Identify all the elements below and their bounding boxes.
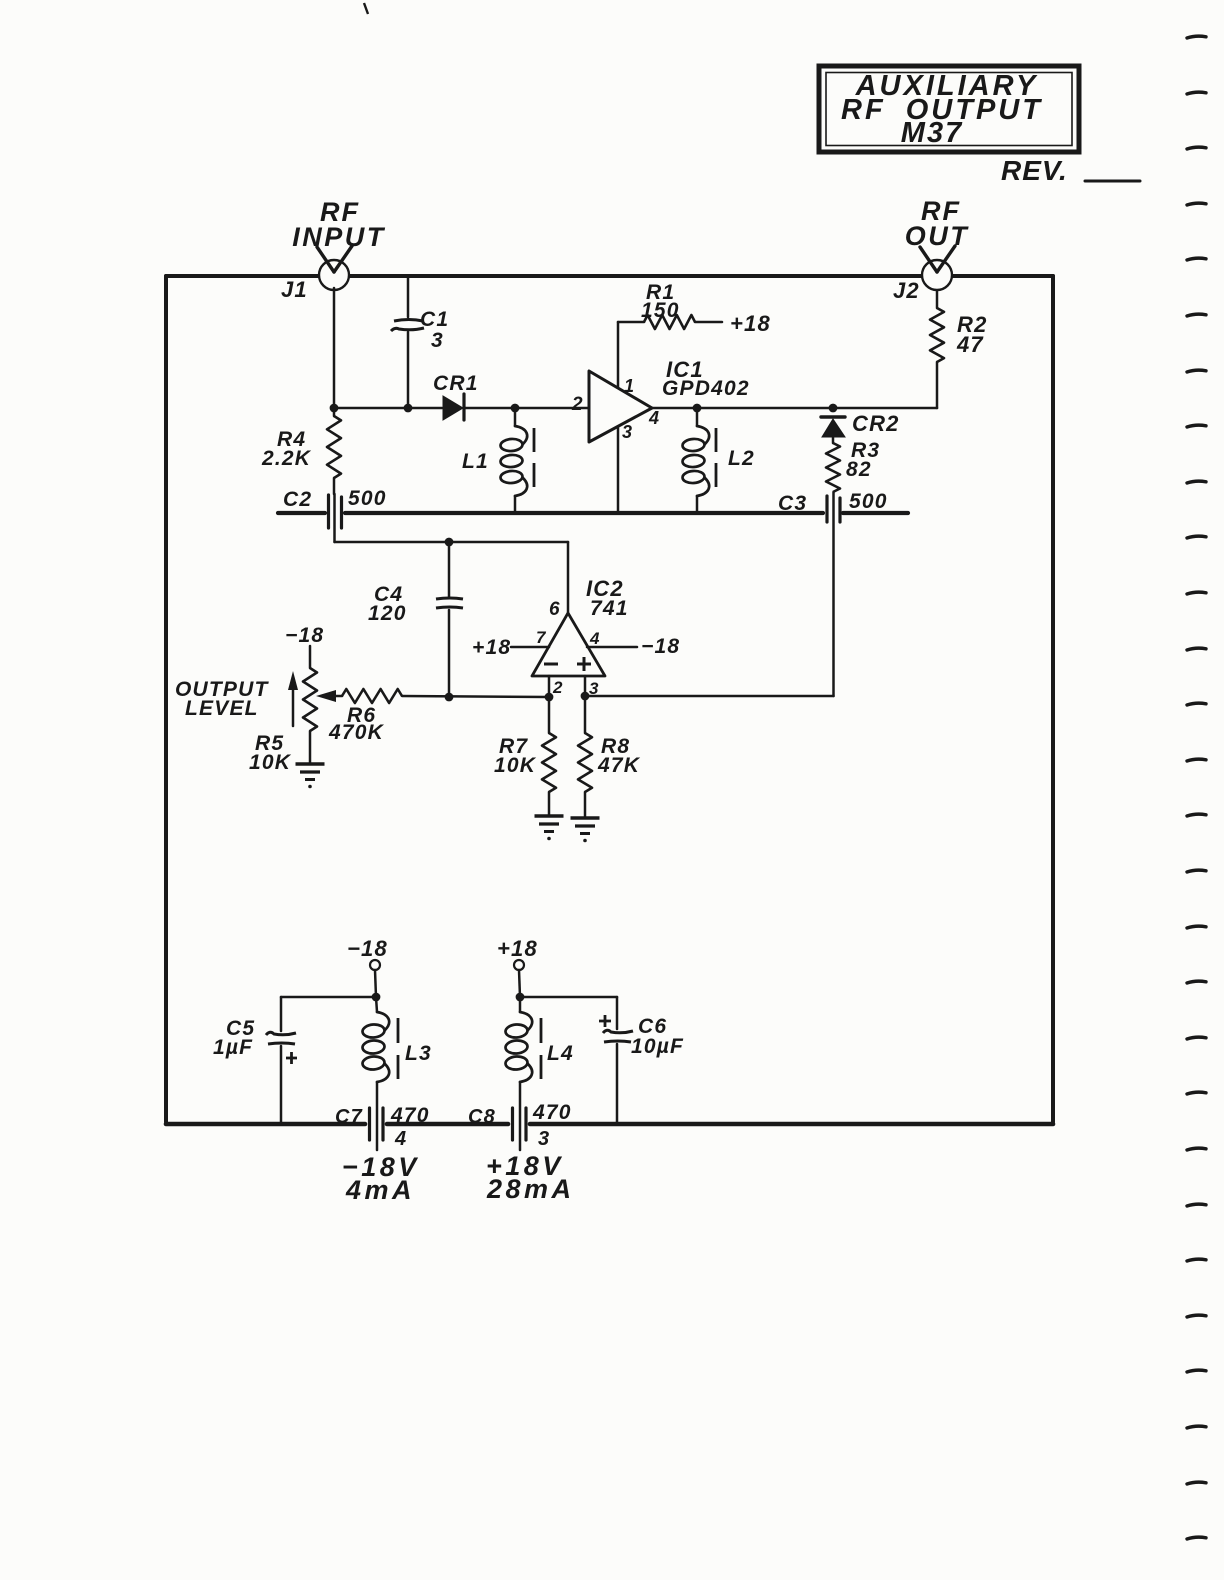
svg-text:4: 4	[648, 408, 660, 428]
capacitor C6 (electrolytic)	[599, 997, 633, 1122]
svg-text:+18: +18	[497, 936, 538, 961]
svg-text:CR2: CR2	[852, 411, 900, 436]
diode CR1	[443, 394, 464, 420]
label J1	[281, 277, 308, 302]
wire IC1 pin1 to R1	[618, 322, 644, 387]
wire IC2 pin2	[548, 676, 551, 733]
label C4 value	[368, 583, 407, 625]
svg-text:+18: +18	[730, 311, 771, 336]
label R1 value	[641, 281, 680, 322]
node IC2 pin3 junction	[581, 692, 590, 701]
svg-text:C3: C3	[778, 492, 807, 515]
svg-text:82: 82	[846, 458, 872, 481]
wire to C6	[520, 996, 617, 999]
wire L1 bottom	[514, 496, 517, 512]
potentiometer R5	[303, 668, 317, 764]
label J2	[893, 278, 920, 303]
enclosure bottom border / ground bus	[166, 1122, 1053, 1127]
svg-text:500: 500	[849, 490, 888, 513]
node L2 tap	[693, 404, 702, 413]
label R2 value	[956, 312, 988, 357]
svg-text:C2: C2	[283, 488, 312, 511]
label R5 value	[249, 732, 292, 774]
label R8 value	[597, 735, 641, 777]
feedthrough capacitor C2	[329, 495, 342, 528]
svg-text:7: 7	[536, 628, 547, 647]
svg-text:L2: L2	[728, 447, 755, 470]
title block box	[819, 66, 1079, 152]
resistor R8	[578, 733, 592, 818]
ground (R5)	[296, 764, 325, 788]
label -18V 4mA	[342, 1152, 420, 1205]
L4 core (dashed)	[540, 1018, 543, 1079]
svg-text:3: 3	[431, 329, 444, 352]
wire IC1 pin3 to bus	[617, 428, 620, 512]
svg-text:J1: J1	[281, 277, 308, 302]
label L1	[462, 450, 489, 473]
label IC2 pin 2	[552, 678, 564, 697]
svg-text:J2: J2	[893, 278, 920, 303]
feedthrough capacitor C8	[513, 1108, 527, 1140]
svg-text:LEVEL: LEVEL	[185, 697, 259, 720]
svg-text:6: 6	[549, 599, 561, 620]
wire L3 to C7	[376, 1082, 379, 1150]
label C6 value	[631, 1015, 684, 1058]
svg-text:1: 1	[624, 376, 635, 396]
wire L2 bottom	[696, 496, 699, 512]
node C4 tap (bottom)	[445, 693, 454, 702]
wire input node	[334, 407, 442, 410]
svg-text:47K: 47K	[597, 754, 641, 777]
inductor L1	[500, 426, 527, 496]
svg-text:470: 470	[532, 1101, 572, 1124]
svg-text:−18: −18	[347, 936, 388, 961]
wire R6 to IC2 pin2	[402, 696, 549, 697]
svg-text:2.2K: 2.2K	[261, 447, 312, 470]
net +18 (R1)	[730, 311, 771, 336]
label RF INPUT	[292, 197, 386, 252]
svg-text:10K: 10K	[494, 754, 537, 777]
op-amp U IC1	[589, 371, 652, 442]
svg-text:470K: 470K	[328, 721, 385, 744]
inductor L4	[505, 1012, 532, 1082]
wire R3 to C3 feedthrough	[832, 492, 835, 696]
wire -18 terminal to L3	[375, 970, 376, 997]
feedthrough capacitor C3	[827, 496, 840, 522]
wire CR1 to IC1 pin 2	[464, 407, 589, 410]
svg-text:4mA: 4mA	[345, 1175, 415, 1205]
label IC1 pin 4	[648, 408, 660, 428]
wire to C5	[281, 996, 376, 999]
node L1 tap	[511, 404, 520, 413]
op-amp IC2	[532, 613, 605, 676]
wire R4/C2 to IC2 pin6	[335, 494, 569, 612]
svg-text:OUT: OUT	[905, 221, 970, 251]
wire +18 terminal to L4	[519, 970, 520, 997]
inductor L2	[682, 426, 709, 496]
label IC1 GPD402	[662, 357, 750, 400]
resistor R4	[327, 408, 341, 494]
label OUTPUT LEVEL	[175, 678, 270, 720]
node C4 tap (top)	[445, 538, 454, 547]
svg-text:4: 4	[589, 629, 601, 648]
svg-text:47: 47	[956, 332, 984, 357]
wire C1 top	[407, 278, 410, 317]
svg-text:470: 470	[390, 1104, 430, 1127]
label IC2 pin 4	[589, 629, 601, 648]
connector J1	[317, 246, 352, 290]
label C1 value	[420, 308, 449, 352]
node J1/C1/R4 junction	[330, 404, 413, 413]
wire -18 to R5	[309, 646, 312, 668]
capacitor C1	[391, 320, 424, 409]
L3 core (dashed)	[397, 1018, 400, 1079]
binder hole scan marks (right edge)	[1187, 36, 1206, 1539]
wiper arrow of R5	[316, 690, 342, 702]
resistor R1	[644, 315, 722, 329]
label R7 value	[494, 735, 537, 777]
L2 core (dashed)	[715, 428, 718, 487]
net +18 (IC2)	[472, 636, 511, 659]
resistor R6	[342, 689, 402, 703]
svg-text:500: 500	[348, 487, 387, 510]
svg-text:120: 120	[368, 602, 407, 625]
enclosure border (module outline)	[166, 276, 1053, 1122]
svg-text:M37: M37	[901, 117, 963, 149]
wire J1 to input node	[333, 288, 336, 408]
svg-text:2: 2	[571, 394, 584, 415]
wire L1 top	[514, 408, 517, 426]
label R4 value	[261, 428, 312, 470]
svg-text:GPD402: GPD402	[662, 377, 750, 400]
svg-text:28mA: 28mA	[486, 1174, 575, 1204]
net -18 (R5)	[285, 624, 324, 647]
svg-text:150: 150	[641, 299, 680, 322]
node L3/C5 junction	[372, 993, 381, 1002]
label L3	[405, 1042, 432, 1065]
label CR2	[852, 411, 900, 436]
label IC1 pin 2	[571, 394, 584, 415]
inductor L3	[362, 1012, 389, 1082]
wire L4 to C8	[519, 1082, 522, 1150]
wire L4 top	[519, 997, 522, 1012]
label R6 value	[328, 704, 385, 744]
label C8 value	[468, 1101, 572, 1150]
label IC1 pin 3	[622, 422, 633, 442]
label REV	[1001, 155, 1140, 186]
label C2 value	[283, 487, 387, 511]
svg-text:3: 3	[538, 1128, 550, 1150]
scan mark (top)	[364, 3, 368, 14]
resistor R7	[542, 733, 556, 816]
ground (R8)	[571, 818, 600, 842]
label C5 value	[213, 1017, 255, 1059]
label +18V 28mA	[486, 1151, 575, 1204]
net +18 terminal	[497, 936, 538, 970]
wire L3 top	[376, 997, 377, 1012]
feedthrough capacitor C7	[370, 1108, 384, 1140]
svg-text:L1: L1	[462, 450, 489, 473]
wire IC2 pin3	[584, 676, 587, 733]
svg-text:1µF: 1µF	[213, 1036, 253, 1059]
label IC1 pin 1	[624, 376, 635, 396]
label IC2 pin 7	[536, 628, 547, 647]
label IC2 741	[586, 576, 629, 620]
node L4/C6 junction	[516, 993, 525, 1002]
label IC2 pin 6	[549, 599, 561, 620]
svg-text:741: 741	[590, 597, 629, 620]
adjustment arrow (output level)	[288, 671, 298, 726]
wire CR2 anode	[832, 437, 835, 443]
svg-text:4: 4	[394, 1128, 407, 1150]
resistor R2	[930, 290, 944, 362]
diode CR2	[821, 417, 845, 437]
label C3 value	[778, 490, 888, 515]
node IC2 pin2 junction	[545, 693, 554, 702]
svg-text:3: 3	[622, 422, 633, 442]
svg-text:10K: 10K	[249, 751, 292, 774]
wire IC2 pin4 (-18)	[587, 646, 637, 649]
svg-text:REV.: REV.	[1001, 155, 1068, 186]
net -18 (IC2)	[641, 635, 680, 658]
label C7 value	[335, 1104, 430, 1150]
label CR1	[433, 372, 479, 395]
svg-text:2: 2	[552, 678, 564, 697]
node CR2 tap	[829, 404, 838, 413]
capacitor C4	[436, 542, 463, 696]
label R3 value	[846, 439, 880, 481]
resistor R3	[826, 443, 840, 492]
label L2	[728, 447, 755, 470]
ground (R7)	[535, 816, 564, 840]
wire L2 top	[696, 408, 699, 426]
ground bus (upper)	[278, 511, 908, 515]
svg-text:L4: L4	[547, 1042, 574, 1065]
svg-text:C7: C7	[335, 1106, 363, 1128]
label RF OUT	[905, 196, 970, 251]
svg-text:10µF: 10µF	[631, 1035, 684, 1058]
title text	[841, 70, 1043, 149]
svg-text:INPUT: INPUT	[292, 222, 386, 252]
capacitor C5 (electrolytic)	[266, 997, 297, 1122]
label IC2 pin 3	[589, 679, 600, 698]
svg-text:−18: −18	[641, 635, 680, 658]
wire R2 to output node	[936, 362, 939, 408]
wire IC1 output	[652, 407, 937, 410]
label L4	[547, 1042, 574, 1065]
wire pin3 to C3 line	[585, 695, 834, 698]
svg-text:−18: −18	[285, 624, 324, 647]
L1 core (dashed)	[533, 428, 536, 487]
svg-text:CR1: CR1	[433, 372, 479, 395]
svg-text:+18: +18	[472, 636, 511, 659]
net -18 terminal	[347, 936, 388, 970]
connector J2	[920, 246, 955, 290]
svg-text:C1: C1	[420, 308, 449, 331]
svg-text:C8: C8	[468, 1106, 496, 1128]
svg-text:L3: L3	[405, 1042, 432, 1065]
wire IC2 pin7 (+18)	[511, 646, 549, 649]
